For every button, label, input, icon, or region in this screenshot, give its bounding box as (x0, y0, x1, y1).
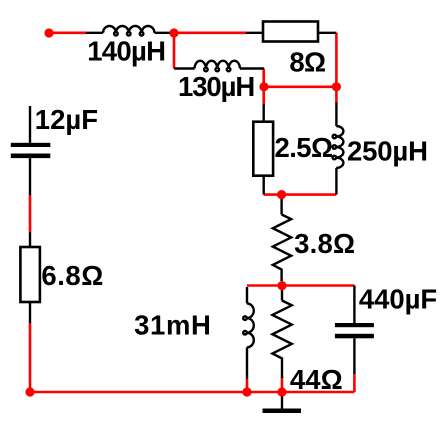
svg-text:31mH: 31mH (134, 309, 211, 340)
svg-text:12µF: 12µF (35, 104, 98, 135)
svg-text:3.8Ω: 3.8Ω (294, 228, 355, 259)
svg-text:44Ω: 44Ω (290, 364, 343, 395)
svg-text:250µH: 250µH (347, 136, 428, 167)
svg-text:440µF: 440µF (359, 284, 437, 315)
svg-text:6.8Ω: 6.8Ω (41, 260, 103, 291)
svg-text:8Ω: 8Ω (289, 46, 326, 77)
svg-text:140µH: 140µH (87, 35, 166, 66)
svg-text:2.5Ω: 2.5Ω (275, 132, 334, 163)
svg-text:130µH: 130µH (178, 71, 255, 102)
